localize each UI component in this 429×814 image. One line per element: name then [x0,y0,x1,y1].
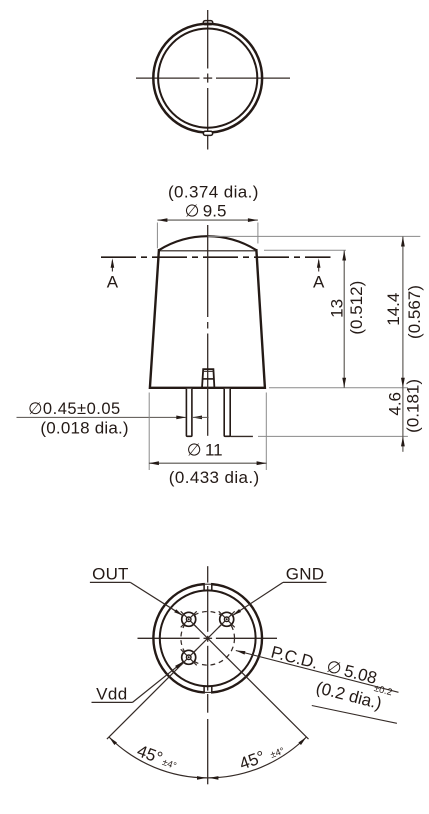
dim 13 line [342,251,346,388]
leader OUT [90,582,183,615]
svg-text:∅0.45±0.05: ∅0.45±0.05 [28,400,121,418]
label 4.6 [386,392,405,416]
svg-text:∅ 9.5: ∅ 9.5 [185,202,227,221]
svg-text:45°: 45° [237,747,268,774]
label A right [313,273,325,292]
svg-text:(0.433 dia.): (0.433 dia.) [169,468,260,487]
radius line center to GND pin [208,619,227,638]
pin left (side view) [186,389,192,437]
svg-text:±4°: ±4° [161,757,178,772]
svg-text:±4°: ±4° [269,746,286,761]
svg-text:(0.018 dia.): (0.018 dia.) [40,419,128,438]
svg-text:(0.181): (0.181) [404,379,423,433]
svg-text:14.4: 14.4 [384,293,403,326]
label 14.4 [384,293,403,326]
label 45 deg left [134,741,177,772]
45 deg ray left (through Vdd pin) [107,638,208,739]
section arrow A left [111,258,115,271]
bottom view centerline tail below arc [207,719,209,784]
svg-text:(0.567): (0.567) [405,285,424,339]
dim 14.4 line [401,237,405,388]
svg-text:(0.512): (0.512) [347,281,366,335]
section line A-A (dash-dot) [101,256,331,258]
45 deg ray right [208,638,309,739]
pin diameter leader [17,416,209,420]
svg-text:A: A [107,273,119,292]
pin right (side view) [224,389,230,437]
dim 11 extension line right [265,393,267,471]
extension line pin bottom [230,435,408,437]
45 deg arc left [109,737,208,780]
label dia 11 [187,441,223,460]
label (0.512) [347,281,366,335]
label (0.2 dia.) [312,678,397,723]
bottom view horizontal centerline [138,637,278,639]
pin GND (bottom view) [219,611,235,627]
svg-text:Vdd: Vdd [96,684,127,703]
label (0.181) [404,379,423,433]
svg-text:A: A [313,273,325,292]
label OUT [92,564,128,583]
side view dome lens on top [159,236,257,250]
svg-text:∅ 11: ∅ 11 [187,441,223,460]
dim 9.5 extension line left [156,223,158,249]
svg-text:13: 13 [327,299,346,318]
label dia 9.5 [185,202,227,221]
label (0.567) [405,285,424,339]
side view body (metal can, tapered) [150,250,265,388]
bottom view vertical centerline [207,566,209,713]
P.C.D. leader line [236,651,399,693]
label GND [286,564,324,583]
label (0.433 dia.) [169,468,260,487]
label P.C.D. dia 5.08 [269,642,393,698]
top view horizontal centerline [136,77,290,79]
label A left [107,273,119,292]
leader Vdd [92,662,184,703]
leader GND [233,582,327,615]
dim 9.5 extension line right [257,223,259,244]
top view index tab (bottom) [203,131,212,135]
svg-text:45°: 45° [134,741,165,768]
top view index tab (top) [203,21,212,25]
bottom view index notch bottom [204,686,212,694]
center post at can bottom [202,369,214,388]
extension line dome top [208,235,420,237]
label (0.374 dia.) [168,182,259,201]
label 13 [327,299,346,318]
svg-text:OUT: OUT [92,564,128,583]
dim 4.6 line [401,388,405,452]
label 45 deg right [237,746,286,774]
svg-text:GND: GND [286,564,324,583]
side view vertical centerline [207,225,209,436]
dim 11 dimension line [149,461,267,465]
bottom view outer circle [153,584,262,693]
bottom view index notch top [204,583,212,591]
extension line dome base [264,249,346,251]
label (0.018 dia.) [40,419,128,438]
bottom view inner circle [160,590,256,686]
section arrow A right [317,258,321,271]
label Vdd [96,684,127,703]
top view outer circle (lens flange) [153,24,262,133]
radius line center to OUT pin [189,619,208,638]
pin Vdd (bottom view) [181,649,197,665]
top view vertical centerline [207,10,209,150]
svg-text:4.6: 4.6 [386,392,405,416]
dim 11 extension line left [148,393,150,471]
top view inner circle (lens rim) [158,29,257,128]
45 deg arc right [208,737,307,780]
P.C.D. dashed circle [181,612,235,666]
pin OUT (bottom view) [181,611,197,627]
extension line body bottom [269,387,408,389]
label dia 0.45 [28,400,121,418]
svg-text:(0.374 dia.): (0.374 dia.) [168,182,259,201]
dim 9.5 dimension line [157,218,258,222]
